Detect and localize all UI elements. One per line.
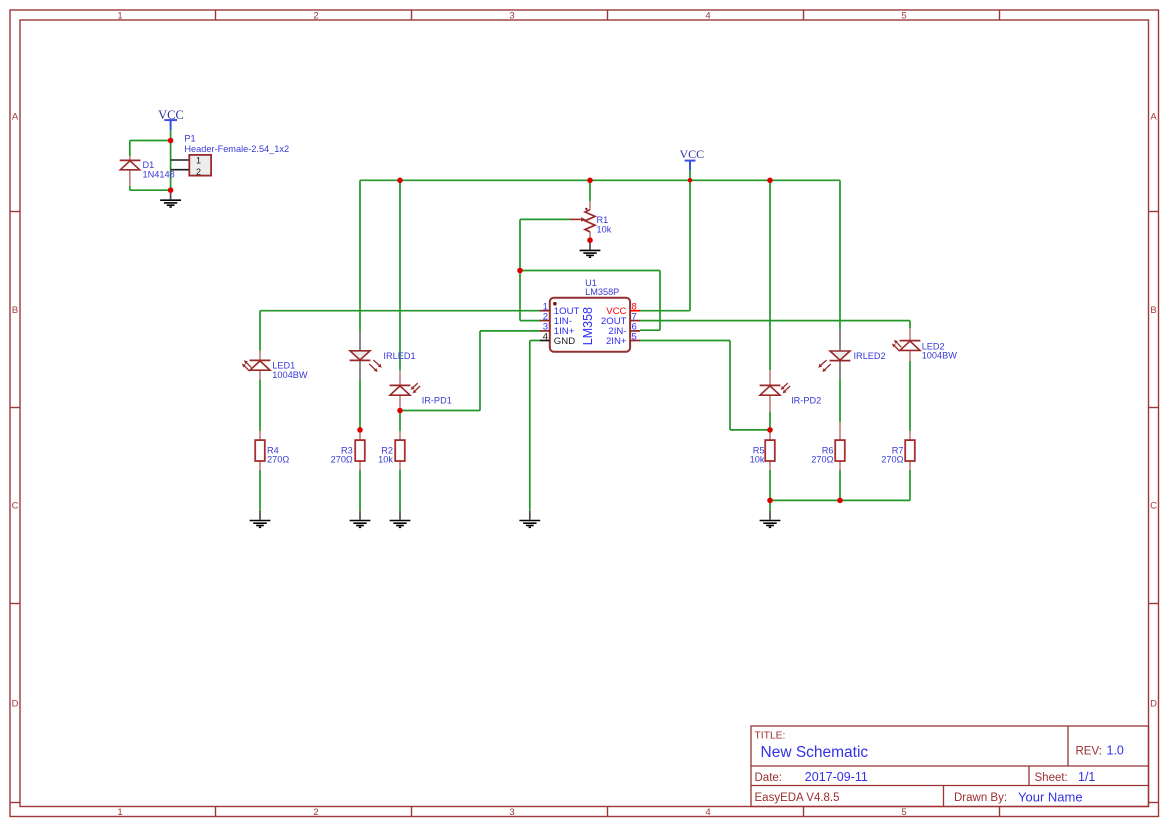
resistor R3: [331, 431, 365, 470]
svg-text:IR-PD1: IR-PD1: [422, 395, 452, 405]
svg-text:1N4148: 1N4148: [143, 169, 175, 179]
wire GND pin4 corner: [530, 340, 541, 342]
ground under R4: [250, 511, 271, 528]
ground under R2: [390, 511, 411, 528]
wire IRLED1 anode: [359, 180, 361, 331]
wire IR-PD1 to 1IN+ horizontal: [400, 410, 480, 412]
svg-text:3: 3: [509, 807, 514, 818]
resistor R6: [811, 422, 845, 470]
junction R5 bottom: [767, 498, 773, 504]
wire pin5 to IR-PD2: [730, 429, 770, 431]
svg-text:C: C: [1150, 501, 1157, 512]
wire R4 to ground: [259, 470, 261, 511]
pin 3 stub: [540, 330, 550, 332]
photodiode IR-PD2: [760, 370, 822, 412]
LED LED2: [892, 328, 957, 361]
svg-text:10k: 10k: [597, 224, 612, 234]
wire IRLED1 to R3: [359, 380, 361, 430]
header P1: [171, 133, 290, 176]
svg-text:1004BW: 1004BW: [922, 351, 958, 361]
wire bottom rail: [770, 499, 910, 501]
LED IRLED2: [818, 329, 885, 378]
svg-text:1: 1: [117, 807, 122, 818]
wire IR-PD2 bottom: [769, 412, 771, 431]
wire LED2 top vertical: [909, 321, 911, 329]
power flag VCC P1: [158, 108, 184, 130]
svg-text:P1: P1: [184, 133, 195, 143]
svg-text:EasyEDA V4.8.5: EasyEDA V4.8.5: [755, 792, 840, 804]
svg-text:IRLED1: IRLED1: [383, 351, 415, 361]
wire R5 ground stub: [769, 500, 771, 510]
junction rail IR-PD1: [397, 178, 403, 184]
svg-text:1004BW: 1004BW: [272, 370, 308, 380]
svg-text:LM358P: LM358P: [585, 287, 619, 297]
svg-text:LED1: LED1: [272, 360, 295, 370]
wire pin5 vertical: [729, 341, 731, 430]
wire D1 bottom vertical: [129, 186, 131, 190]
svg-text:VCC: VCC: [679, 147, 704, 161]
power flag VCC center: [679, 147, 704, 170]
resistor R7: [881, 431, 915, 470]
wire 1IN- 2IN- horizontal: [520, 270, 660, 272]
svg-text:Date:: Date:: [755, 772, 783, 784]
title block: [751, 726, 1149, 807]
junction R6 bottom: [837, 498, 843, 504]
potentiometer R1: [570, 201, 612, 240]
wire VCC1 vertical: [170, 130, 172, 191]
wire IR-PD1 bottom to R2: [399, 411, 401, 432]
wire R1 wiper horizontal: [520, 218, 570, 220]
pin 1 stub: [540, 310, 550, 312]
svg-text:2: 2: [313, 807, 318, 818]
wire R7 to bottom rail: [909, 470, 911, 500]
svg-text:270Ω: 270Ω: [881, 455, 903, 465]
wire LED1 to R4: [259, 379, 261, 431]
svg-text:C: C: [12, 501, 19, 512]
svg-text:GND: GND: [554, 336, 575, 347]
resistor R2: [378, 431, 405, 470]
wire R3 to ground: [359, 470, 361, 511]
svg-text:1/1: 1/1: [1078, 770, 1095, 784]
wire 1IN- vertical: [519, 271, 521, 321]
svg-text:270Ω: 270Ω: [811, 455, 833, 465]
svg-text:IRLED2: IRLED2: [854, 351, 886, 361]
svg-text:Sheet:: Sheet:: [1035, 772, 1068, 784]
svg-text:Drawn By:: Drawn By:: [954, 792, 1007, 804]
junction rail IR-PD2: [767, 178, 773, 184]
svg-text:Your Name: Your Name: [1018, 789, 1083, 804]
wire IRLED2 top: [839, 180, 841, 329]
svg-text:270Ω: 270Ω: [331, 455, 353, 465]
op-amp U1: [540, 278, 640, 351]
svg-text:1.0: 1.0: [1107, 744, 1124, 758]
svg-text:10k: 10k: [750, 455, 765, 465]
diode D1: [120, 156, 175, 186]
junction IR-PD1 bottom: [397, 408, 403, 414]
junction VCC P1 top: [168, 138, 174, 144]
svg-text:2IN+: 2IN+: [606, 336, 627, 347]
wire LED2 to R7: [909, 361, 911, 431]
junction P1 bottom: [168, 187, 174, 193]
junction rail VCC2: [688, 178, 693, 183]
ground under U1 pin4: [519, 511, 540, 528]
pin names: [554, 306, 627, 347]
svg-text:2017-09-11: 2017-09-11: [805, 770, 868, 784]
wire R5 bottom: [769, 470, 771, 500]
svg-text:B: B: [12, 305, 18, 316]
wire pin5 horizontal: [640, 340, 731, 342]
wire 1IN- to pin2: [520, 320, 541, 322]
svg-text:2: 2: [196, 167, 201, 177]
pin 7 stub: [630, 320, 640, 322]
svg-text:4: 4: [705, 11, 710, 22]
wire IR-PD1 top: [399, 180, 401, 370]
svg-text:D: D: [12, 699, 19, 710]
wire D1 top horizontal: [130, 140, 171, 142]
ground under R1: [580, 240, 601, 257]
svg-text:2: 2: [313, 11, 318, 22]
svg-text:270Ω: 270Ω: [267, 455, 289, 465]
svg-text:1: 1: [117, 11, 122, 22]
svg-text:3: 3: [509, 11, 514, 22]
wire IRLED2 to R6: [839, 378, 841, 422]
svg-text:5: 5: [901, 11, 906, 22]
svg-text:5: 5: [632, 331, 637, 342]
wire D1 top vertical: [129, 141, 131, 157]
svg-text:1: 1: [196, 156, 201, 166]
junction R1 bottom: [587, 237, 593, 243]
wire 2IN- to pin6: [640, 329, 660, 331]
photodiode IR-PD1: [390, 370, 452, 410]
pin 4 stub: [540, 340, 550, 342]
wire VCC top rail: [360, 179, 840, 181]
wire 2OUT to LED2: [640, 320, 911, 322]
svg-text:10k: 10k: [378, 455, 393, 465]
LED LED1: [242, 351, 308, 380]
svg-text:5: 5: [901, 807, 906, 818]
resistor R5: [750, 431, 775, 470]
wire LED1 top vertical: [259, 311, 261, 351]
wire GND vertical: [529, 341, 531, 511]
svg-text:New Schematic: New Schematic: [761, 744, 869, 761]
ground under R3: [350, 511, 371, 528]
svg-text:Header-Female-2.54_1x2: Header-Female-2.54_1x2: [184, 144, 289, 154]
svg-text:D: D: [1150, 699, 1157, 710]
wire VCC2 vertical: [689, 170, 691, 311]
wire 1IN+ vertical: [479, 331, 481, 411]
wire R2 to ground: [399, 470, 401, 511]
wire 2IN- vertical: [659, 271, 661, 331]
pin 2 stub: [540, 320, 550, 322]
wire R6 bottom: [839, 470, 841, 500]
pin 6 stub: [630, 330, 640, 332]
svg-text:A: A: [1150, 112, 1157, 123]
junction R3 top: [357, 427, 363, 433]
junction rail R1: [587, 178, 593, 184]
wire D1 bottom horizontal: [130, 189, 171, 191]
ground under P1: [160, 190, 181, 207]
junction wiper node: [517, 268, 523, 274]
svg-text:A: A: [12, 112, 19, 123]
ground under R5: [760, 511, 781, 528]
wire pin8 to VCC2: [640, 310, 691, 312]
pin numbers: [543, 302, 637, 343]
wire IR-PD2 top: [769, 180, 771, 370]
svg-text:TITLE:: TITLE:: [755, 731, 786, 742]
svg-text:REV:: REV:: [1076, 746, 1102, 758]
svg-text:4: 4: [543, 331, 548, 342]
wire 1IN+ to pin3: [480, 330, 541, 332]
svg-text:IR-PD2: IR-PD2: [791, 395, 821, 405]
svg-text:B: B: [1150, 305, 1156, 316]
pin 8 stub: [630, 310, 640, 312]
svg-text:4: 4: [705, 807, 710, 818]
wire 1OUT to LED1: [260, 310, 541, 312]
resistor R4: [255, 431, 289, 470]
wire R1 top: [589, 180, 591, 201]
LED IRLED1: [350, 332, 416, 381]
svg-text:LM358: LM358: [581, 307, 595, 345]
junction R5 top: [767, 427, 773, 433]
wire R1 wiper vertical: [519, 219, 521, 270]
pin 5 stub: [630, 340, 640, 342]
